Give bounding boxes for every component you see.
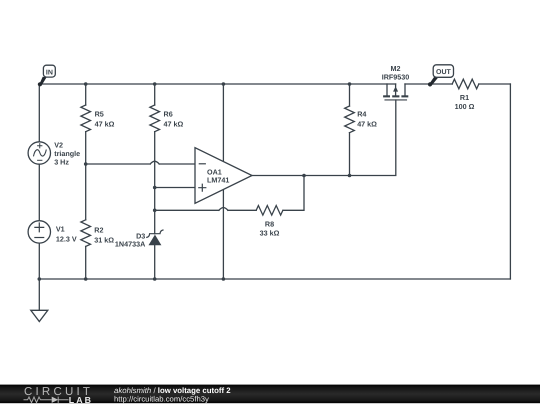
node top rail / R4	[348, 82, 352, 86]
wire op-amp V- supply to bottom rail	[222, 190, 224, 279]
svg-text:31 kΩ: 31 kΩ	[94, 235, 114, 244]
node R6 plus input	[153, 186, 157, 190]
node top rail / R6	[153, 82, 157, 86]
node output feedback tap	[302, 174, 306, 178]
wire R6 node to D3 node	[154, 188, 156, 211]
wire left column V2 to V1	[38, 164, 40, 220]
wire right edge vertical	[509, 84, 511, 279]
svg-text:12.3 V: 12.3 V	[56, 234, 77, 243]
flag IN	[38, 65, 56, 86]
transistor M2 (PMOS IRF9530)	[383, 84, 408, 100]
wire left column V1 to bottom rail	[38, 243, 40, 279]
resistor R1	[452, 79, 479, 89]
node bottom rail / ground	[38, 277, 42, 281]
svg-text:http://circuitlab.com/cc5fh3y: http://circuitlab.com/cc5fh3y	[114, 395, 209, 404]
svg-text:IN: IN	[46, 70, 53, 77]
wire top rail left segment	[39, 83, 395, 85]
flag OUT	[428, 65, 454, 87]
svg-text:V1: V1	[56, 225, 65, 234]
node bottom rail / R2	[84, 277, 88, 281]
wire ground stem	[38, 279, 40, 310]
svg-text:R2: R2	[94, 225, 103, 234]
wire R8 right to output node	[283, 176, 304, 211]
svg-text:R8: R8	[265, 220, 274, 229]
wire op-amp output to M2 gate	[252, 100, 396, 176]
wire op-amp V+ supply from top rail	[222, 84, 224, 161]
svg-text:OUT: OUT	[436, 69, 452, 76]
resistor R4	[345, 84, 355, 176]
wire top rail M2 drain to R1	[405, 83, 452, 85]
node top rail / R5	[84, 82, 88, 86]
svg-text:R4: R4	[357, 110, 366, 119]
wire feedback left segment to R8	[155, 209, 257, 211]
svg-text:LAB: LAB	[69, 395, 92, 405]
resistor R5	[81, 84, 91, 164]
zener diode D3	[147, 210, 163, 279]
svg-text:LM741: LM741	[207, 176, 229, 185]
svg-text:R5: R5	[95, 110, 104, 119]
svg-text:100 Ω: 100 Ω	[455, 102, 475, 111]
svg-text:1N4733A: 1N4733A	[115, 240, 145, 249]
wire hop over op-amp supply column	[219, 208, 228, 211]
svg-text:33 kΩ: 33 kΩ	[260, 229, 280, 238]
svg-text:R1: R1	[460, 93, 469, 102]
svg-text:IRF9530: IRF9530	[382, 72, 410, 81]
wire bottom rail	[39, 278, 510, 280]
svg-text:47 kΩ: 47 kΩ	[357, 120, 377, 129]
wire op-amp minus input from R5 node	[86, 163, 195, 165]
resistor R6	[150, 84, 160, 188]
ground	[31, 310, 48, 321]
wire R1 to right edge	[479, 83, 511, 85]
resistor R8	[256, 206, 283, 216]
wire left column top (IN to V2)	[38, 84, 40, 142]
node R6-D3 feedback	[153, 209, 157, 213]
node bottom rail / op-amp V-	[222, 277, 226, 281]
svg-text:3 Hz: 3 Hz	[54, 157, 69, 166]
wire op-amp plus input from R6 node	[155, 187, 195, 189]
svg-text:47 kΩ: 47 kΩ	[95, 120, 115, 129]
voltage source V1 (DC)	[28, 221, 50, 243]
node bottom rail / D3	[153, 277, 157, 281]
footer bar	[0, 385, 540, 404]
op-amp OA1	[195, 148, 252, 204]
voltage source V2 (function generator)	[28, 142, 50, 164]
node R5-R2 minus input	[84, 162, 88, 166]
resistor R2	[81, 164, 91, 279]
node output R4	[348, 174, 352, 178]
svg-text:47 kΩ: 47 kΩ	[164, 120, 184, 129]
node top rail / op-amp V+	[222, 82, 226, 86]
svg-text:R6: R6	[164, 110, 173, 119]
wire hop over R6 column	[150, 161, 159, 164]
CircuitLab logo	[24, 386, 93, 405]
